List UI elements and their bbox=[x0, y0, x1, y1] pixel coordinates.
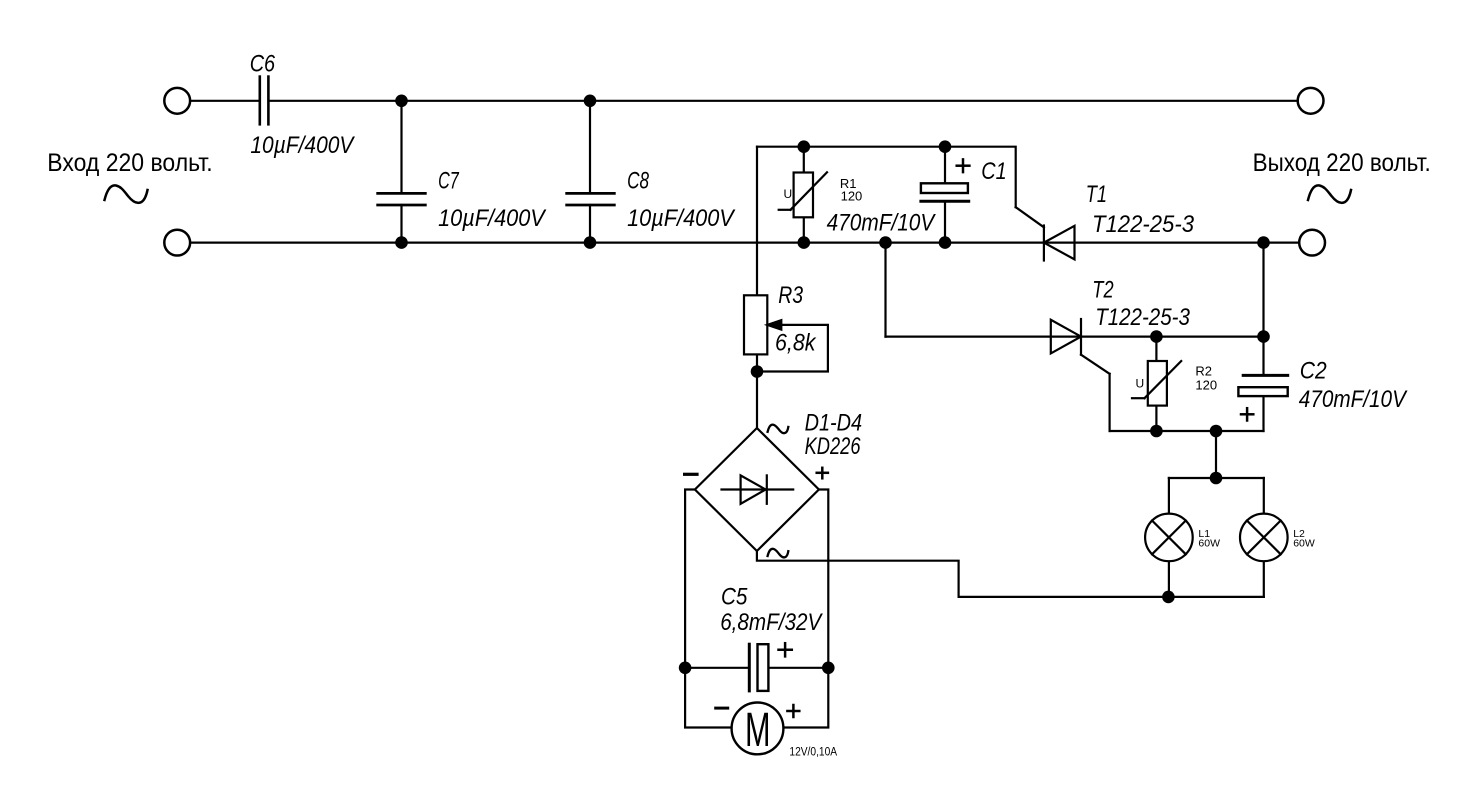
plus sign motor bbox=[787, 705, 799, 717]
svg-text:C2: C2 bbox=[1300, 358, 1327, 385]
node dots bbox=[395, 95, 1270, 675]
lamp L1 leads bbox=[1168, 478, 1170, 597]
svg-text:Выход 220 вольт.: Выход 220 вольт. bbox=[1253, 149, 1431, 177]
minus sign motor bbox=[716, 707, 728, 710]
svg-text:C8: C8 bbox=[627, 167, 649, 194]
svg-text:Вход 220 вольт.: Вход 220 вольт. bbox=[47, 149, 212, 177]
svg-text:C1: C1 bbox=[981, 158, 1006, 185]
svg-text:C5: C5 bbox=[721, 584, 748, 611]
wire left branch to R3 bbox=[756, 147, 758, 428]
svg-text:470mF/10V: 470mF/10V bbox=[1299, 386, 1408, 413]
svg-text:10µF/400V: 10µF/400V bbox=[438, 205, 546, 232]
svg-text:C7: C7 bbox=[438, 167, 460, 194]
wire sub-rail R1 C1 top bbox=[757, 147, 1016, 208]
wire lamps top rail bbox=[1169, 477, 1264, 479]
svg-text:470mF/10V: 470mF/10V bbox=[827, 209, 936, 236]
svg-text:60W: 60W bbox=[1293, 537, 1315, 549]
potentiometer R3 bbox=[744, 295, 767, 354]
tilde input bbox=[105, 185, 148, 202]
svg-text:R2: R2 bbox=[1195, 363, 1212, 378]
wire R2 C2 bottom row bbox=[1110, 430, 1264, 432]
wire bridge right to motor bbox=[783, 490, 828, 728]
lamp L2 leads bbox=[1263, 478, 1265, 597]
svg-text:6,8mF/32V: 6,8mF/32V bbox=[720, 609, 823, 636]
wire C2 top lead from bottom rail bbox=[1262, 243, 1264, 337]
svg-text:R3: R3 bbox=[778, 282, 803, 309]
thyristor T1 bbox=[1016, 207, 1044, 227]
lamp L2 bbox=[1240, 514, 1288, 562]
capacitor C2 bbox=[1262, 337, 1264, 376]
resistor R2 varistor bbox=[1155, 337, 1157, 431]
svg-text:120: 120 bbox=[841, 188, 863, 203]
svg-text:U: U bbox=[1136, 377, 1145, 391]
capacitor C8 bbox=[589, 101, 591, 194]
svg-text:T122-25-3: T122-25-3 bbox=[1095, 304, 1190, 331]
svg-text:KD226: KD226 bbox=[805, 433, 861, 460]
terminal output top bbox=[1298, 88, 1324, 114]
wire bottom rail bbox=[190, 242, 1299, 244]
capacitor C5 bbox=[685, 667, 749, 669]
terminal input top bbox=[164, 88, 190, 114]
svg-text:6,8k: 6,8k bbox=[775, 330, 817, 357]
terminal output bottom bbox=[1299, 230, 1325, 256]
wire bridge left to motor bbox=[685, 490, 732, 728]
svg-text:60W: 60W bbox=[1198, 537, 1220, 549]
capacitor C1 bbox=[944, 147, 946, 184]
wire lamp feed bbox=[1215, 431, 1217, 478]
plus sign C2 bbox=[1241, 408, 1253, 420]
plus sign C1 bbox=[957, 159, 970, 172]
svg-text:10µF/400V: 10µF/400V bbox=[627, 205, 735, 232]
diode bridge D1-D4 bbox=[695, 428, 819, 551]
svg-text:T2: T2 bbox=[1092, 277, 1113, 304]
motor M bbox=[732, 703, 784, 755]
lamp L1 bbox=[1145, 514, 1193, 562]
wire T2 row bbox=[886, 336, 1264, 338]
svg-text:M: M bbox=[745, 704, 771, 757]
svg-text:T1: T1 bbox=[1086, 181, 1107, 208]
svg-text:10µF/400V: 10µF/400V bbox=[250, 132, 355, 159]
resistor R1 varistor bbox=[803, 147, 805, 243]
wire top rail left segment bbox=[190, 100, 259, 102]
plus sign bridge bbox=[817, 468, 828, 479]
tilde bridge bottom bbox=[768, 549, 789, 558]
capacitor C6 bbox=[260, 77, 269, 125]
node bottom rail junction to T2 branch left bbox=[884, 243, 886, 337]
capacitor C7 bbox=[400, 101, 402, 194]
terminal input bottom bbox=[164, 230, 190, 256]
tilde output bbox=[1308, 185, 1351, 202]
svg-text:T122-25-3: T122-25-3 bbox=[1092, 211, 1195, 238]
wire lamps bottom rail bbox=[757, 550, 1264, 597]
thyristor T2 bbox=[1051, 320, 1081, 354]
svg-text:120: 120 bbox=[1195, 378, 1217, 393]
minus sign bridge bbox=[685, 473, 697, 476]
svg-text:C6: C6 bbox=[250, 50, 276, 77]
svg-text:12V/0,10A: 12V/0,10A bbox=[789, 746, 837, 758]
tilde bridge top bbox=[768, 425, 789, 434]
plus sign C5 bbox=[779, 643, 792, 656]
wire top rail right segment bbox=[270, 100, 1298, 102]
svg-text:U: U bbox=[784, 187, 793, 201]
